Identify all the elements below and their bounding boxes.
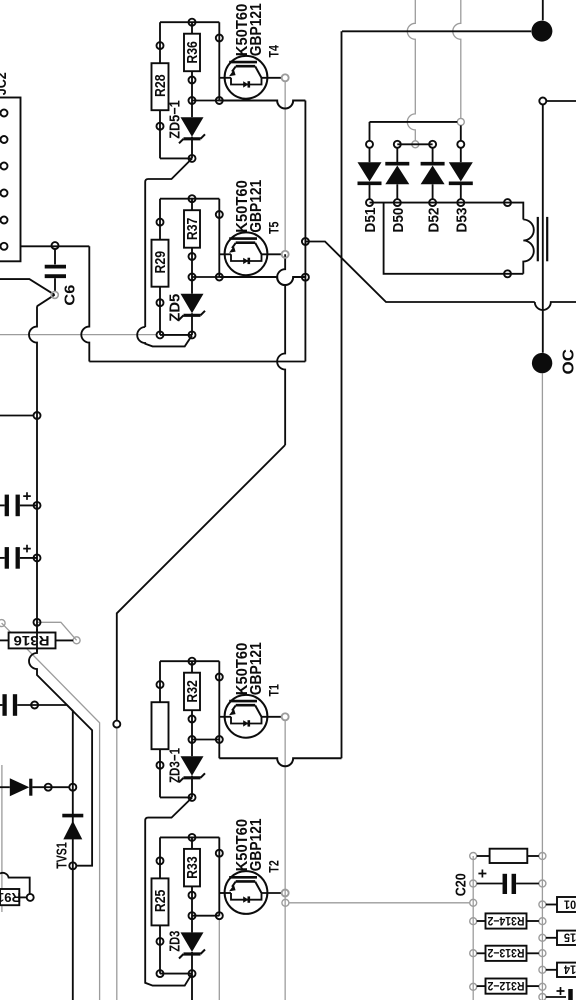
svg-text:D50: D50	[390, 208, 407, 233]
svg-text:R32: R32	[184, 680, 201, 703]
svg-text:GBP121: GBP121	[248, 818, 265, 871]
svg-text:R28: R28	[152, 74, 169, 97]
svg-text:D52: D52	[425, 208, 442, 233]
svg-text:R33: R33	[184, 856, 201, 879]
svg-text:R29: R29	[152, 251, 169, 274]
svg-text:D53: D53	[454, 208, 471, 233]
svg-text:R312−2: R312−2	[487, 979, 524, 993]
svg-text:GBP121: GBP121	[248, 179, 265, 232]
svg-text:R314−2: R314−2	[487, 914, 524, 928]
svg-text:R301: R301	[564, 897, 576, 911]
svg-text:R314: R314	[564, 963, 576, 977]
svg-text:ZD5−1: ZD5−1	[167, 100, 183, 139]
svg-text:C6: C6	[61, 285, 78, 306]
svg-text:TVS1: TVS1	[54, 842, 70, 869]
svg-text:T1: T1	[266, 684, 282, 697]
svg-text:ZD3: ZD3	[167, 931, 183, 952]
svg-text:ZD3−1: ZD3−1	[167, 748, 183, 783]
svg-text:R25: R25	[152, 890, 169, 913]
svg-text:R91: R91	[0, 890, 21, 905]
svg-text:D51: D51	[362, 208, 379, 233]
svg-text:R37: R37	[184, 218, 201, 241]
svg-text:R316: R316	[13, 633, 50, 648]
svg-text:T4: T4	[266, 45, 282, 58]
svg-text:R315: R315	[564, 931, 576, 945]
svg-text:GBP121: GBP121	[248, 642, 265, 695]
svg-text:ZD5: ZD5	[167, 294, 183, 322]
svg-text:R313−2: R313−2	[487, 946, 524, 960]
svg-text:GBP121: GBP121	[248, 3, 265, 56]
svg-text:T2: T2	[266, 860, 282, 873]
svg-text:T5: T5	[266, 221, 282, 234]
svg-text:R36: R36	[184, 41, 201, 64]
svg-text:OC: OC	[560, 349, 576, 375]
svg-text:C20: C20	[453, 873, 470, 896]
svg-text:JC2: JC2	[0, 72, 10, 95]
